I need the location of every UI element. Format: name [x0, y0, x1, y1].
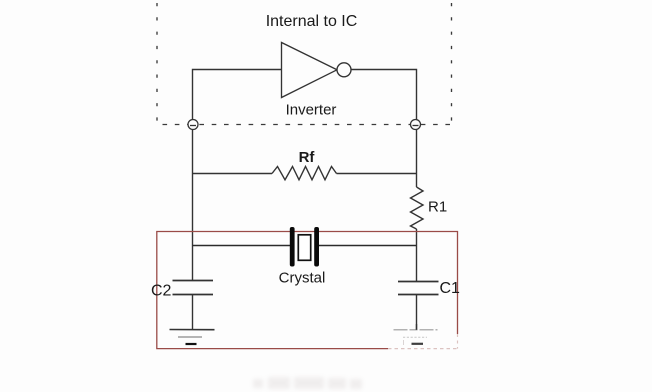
- svg-text:C2: C2: [151, 282, 172, 299]
- svg-text:Crystal: Crystal: [279, 269, 326, 286]
- svg-text:R1: R1: [428, 198, 447, 215]
- svg-text:C1: C1: [440, 280, 461, 297]
- svg-text:Rf: Rf: [299, 149, 316, 166]
- svg-text:Inverter: Inverter: [286, 102, 337, 119]
- svg-text:Internal to IC: Internal to IC: [266, 13, 358, 30]
